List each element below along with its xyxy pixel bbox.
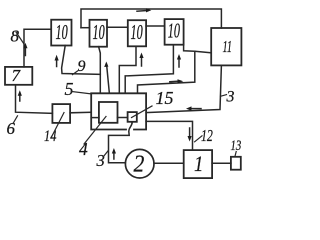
svg-text:11: 11 — [223, 38, 232, 56]
block 4 (inner) — [99, 102, 118, 123]
label 15 with leader — [132, 88, 174, 118]
label 8 — [11, 27, 25, 46]
block 10 (D) — [165, 19, 184, 45]
wire D output — [125, 45, 173, 93]
arrow up under A — [55, 55, 59, 67]
wire 5 right to 1 top (net 12) — [146, 121, 192, 150]
wire 7 to A (net 8) — [24, 29, 51, 67]
wire B output — [99, 47, 101, 94]
wire 4 to 15 — [118, 117, 128, 119]
wire 11 bottom feedback to 5 right (net 3) — [146, 65, 221, 112]
wire D to 11 — [184, 45, 212, 53]
wire 1 to 13 — [212, 162, 231, 164]
label 13 — [231, 136, 242, 156]
circle 2 — [125, 149, 154, 178]
block 7 — [5, 66, 32, 85]
svg-text:2: 2 — [134, 150, 145, 176]
block 15 (inner) — [128, 112, 137, 122]
svg-text:1: 1 — [194, 153, 203, 177]
label 9 — [73, 58, 86, 75]
block 10 (C) — [128, 20, 146, 46]
svg-text:10: 10 — [56, 21, 68, 44]
wire C output — [119, 46, 136, 93]
svg-text:4: 4 — [79, 139, 88, 159]
arrow up on wire 8 — [23, 43, 27, 56]
label 6 — [7, 116, 18, 138]
block 11 — [211, 28, 241, 65]
wire 11 left staircase to 5 — [138, 51, 195, 93]
wire circle 2 to 1 — [154, 162, 184, 164]
block 13 — [231, 157, 241, 170]
arrow up under C — [139, 53, 143, 67]
block 5 (outer) — [91, 93, 146, 129]
wire 7 bottom to 14 (net 6) — [16, 85, 53, 114]
wire feedback into B left — [81, 27, 90, 29]
arrow down on wire 12 — [188, 128, 192, 142]
label 3 (bottom) — [96, 151, 109, 170]
label 4 with leader — [79, 117, 106, 160]
block 10 (A) — [51, 20, 71, 46]
wire 15 down to circle 2 (net 3) — [109, 122, 133, 163]
block 14 — [52, 104, 70, 123]
block 1 — [184, 150, 212, 178]
wire A output (net 9) — [62, 46, 101, 75]
svg-text:15: 15 — [156, 88, 174, 108]
label 14 with leader — [44, 113, 64, 146]
block 10 (B) — [90, 20, 108, 47]
svg-text:5: 5 — [65, 79, 74, 99]
svg-text:10: 10 — [93, 21, 105, 44]
svg-text:10: 10 — [168, 19, 180, 42]
wire C to D — [146, 25, 165, 27]
svg-text:9: 9 — [78, 58, 86, 75]
arrow up under D — [177, 54, 181, 67]
svg-text:10: 10 — [131, 21, 143, 44]
label 5 with leader — [65, 79, 91, 99]
svg-text:12: 12 — [201, 127, 213, 145]
label 3 (right) — [221, 89, 235, 106]
wire 14 to 5 left — [70, 111, 91, 114]
arrow up under B — [104, 62, 109, 93]
arrow left on feedback — [186, 106, 201, 110]
svg-text:3: 3 — [226, 89, 235, 106]
arrow up on net 6 — [18, 90, 22, 101]
arrow right on top line — [137, 8, 151, 12]
wire B to C — [107, 26, 128, 28]
arrow up on bottom net 3 — [112, 148, 116, 159]
label 12 — [195, 127, 213, 145]
arrow right on staircase — [170, 79, 184, 83]
wire top feedback line — [81, 9, 221, 28]
svg-text:3: 3 — [96, 151, 105, 170]
wire stub inside 5 to 4 — [91, 117, 99, 119]
